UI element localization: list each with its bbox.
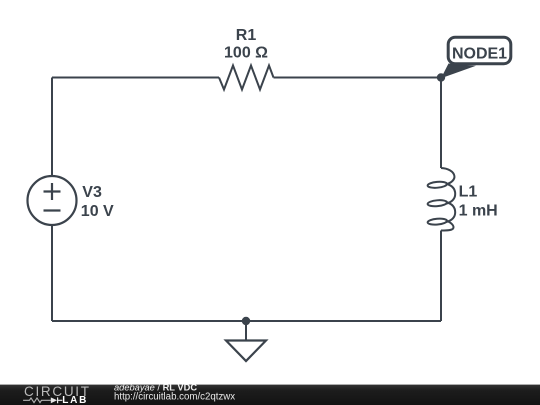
svg-text:http://circuitlab.com/c2qtzwx: http://circuitlab.com/c2qtzwx xyxy=(114,392,235,403)
svg-text:NODE1: NODE1 xyxy=(452,45,507,62)
ground triangle xyxy=(226,341,266,362)
voltage source V3 circle xyxy=(28,176,77,225)
svg-text:100 Ω: 100 Ω xyxy=(224,45,268,62)
inductor L1 exit arc xyxy=(441,221,453,231)
inductor L1 coil entry arc xyxy=(441,168,454,184)
V3 plus sign xyxy=(44,183,61,200)
inductor L1 loop 3 xyxy=(427,218,447,225)
wire left upper xyxy=(51,78,53,177)
wire right upper xyxy=(440,78,442,169)
svg-text:10 V: 10 V xyxy=(81,203,114,220)
wire top-left segment xyxy=(52,77,219,79)
svg-text:L1: L1 xyxy=(459,183,478,200)
svg-text:1 mH: 1 mH xyxy=(459,202,498,219)
svg-text:V3: V3 xyxy=(82,184,102,201)
logo diode xyxy=(51,397,57,403)
inductor L1 arc 2 xyxy=(446,202,455,222)
svg-text:R1: R1 xyxy=(236,27,257,44)
wire bottom xyxy=(52,320,441,322)
wire top-right segment xyxy=(274,77,442,79)
inductor L1 loop 1 xyxy=(427,181,447,188)
inductor L1 arc 1 xyxy=(446,184,455,204)
svg-text:LAB: LAB xyxy=(62,395,87,405)
NODE1 callout tail xyxy=(441,64,476,79)
node junction dot ground xyxy=(242,317,250,325)
ground stub wire xyxy=(245,321,247,341)
node junction dot top right xyxy=(437,73,445,81)
logo resistor zigzag xyxy=(23,398,51,403)
V3 minus sign xyxy=(44,209,61,211)
wire right lower xyxy=(440,231,442,322)
inductor L1 loop 2 xyxy=(427,199,447,206)
wire left lower xyxy=(51,225,53,321)
NODE1 callout bubble xyxy=(448,37,511,63)
resistor R1 xyxy=(219,66,274,90)
